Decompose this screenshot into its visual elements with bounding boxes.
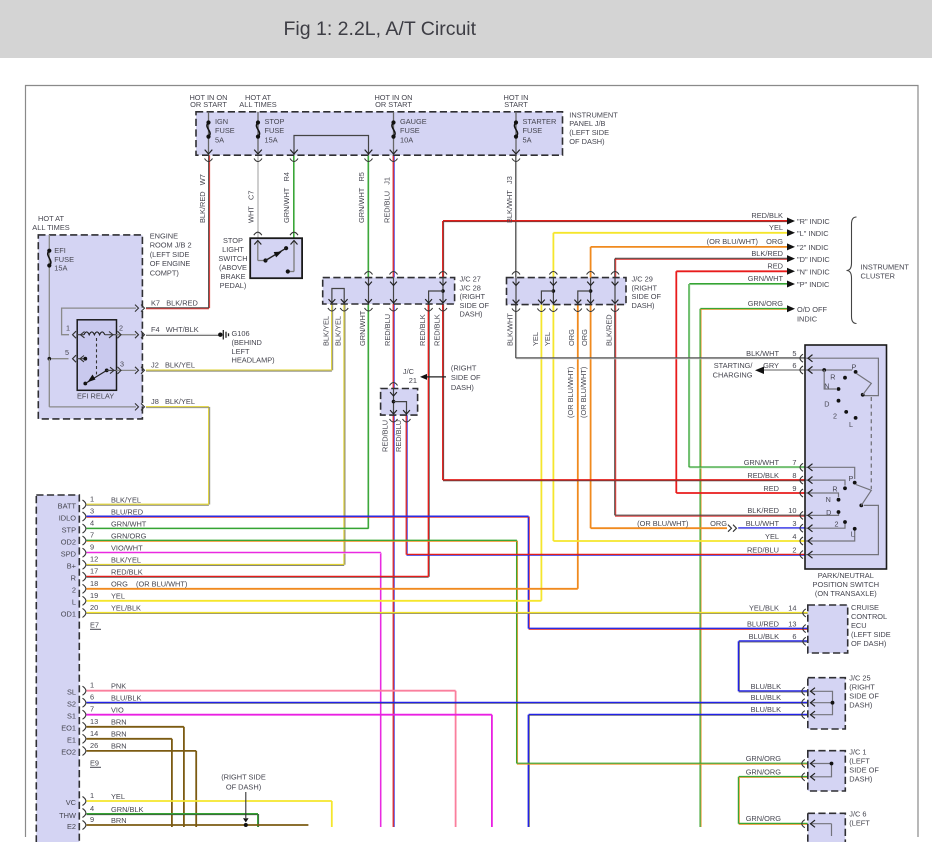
svg-text:RED/BLK: RED/BLK (111, 568, 143, 577)
svg-text:6: 6 (792, 361, 796, 370)
svg-text:3: 3 (792, 519, 796, 528)
svg-text:BLK/YEL: BLK/YEL (111, 495, 141, 504)
svg-text:BRN: BRN (111, 816, 127, 825)
svg-text:(ABOVE: (ABOVE (219, 263, 247, 272)
svg-text:R: R (71, 574, 76, 583)
svg-text:ORG: ORG (710, 519, 727, 528)
svg-text:9: 9 (90, 815, 94, 824)
svg-text:PANEL J/B: PANEL J/B (569, 119, 605, 128)
svg-text:BLK/RED W7: BLK/RED W7 (198, 174, 207, 223)
svg-text:26: 26 (90, 741, 98, 750)
svg-text:OD1: OD1 (61, 610, 76, 619)
svg-text:20: 20 (90, 603, 98, 612)
svg-text:8: 8 (792, 471, 796, 480)
svg-text:SIDE OF: SIDE OF (632, 292, 662, 301)
svg-text:L: L (72, 598, 76, 607)
svg-text:STOP: STOP (265, 117, 285, 126)
svg-text:J/C 1: J/C 1 (849, 748, 866, 757)
svg-text:(OR BLU/WHT) ORG: (OR BLU/WHT) ORG (707, 237, 784, 246)
svg-text:YEL: YEL (111, 792, 125, 801)
svg-text:GRN/WHT R4: GRN/WHT R4 (282, 172, 291, 223)
svg-text:GRN/BLK: GRN/BLK (111, 805, 144, 814)
svg-text:GRN/ORG: GRN/ORG (746, 754, 782, 763)
svg-text:BLK/WHT J3: BLK/WHT J3 (505, 176, 514, 223)
svg-text:L: L (851, 530, 855, 539)
svg-text:13: 13 (90, 717, 98, 726)
svg-text:J/C 28: J/C 28 (460, 283, 481, 292)
svg-text:19: 19 (90, 591, 98, 600)
svg-text:RED/BLU: RED/BLU (747, 545, 779, 554)
svg-text:(LEFT: (LEFT (849, 757, 870, 766)
svg-text:BLK/WHT: BLK/WHT (505, 313, 514, 346)
svg-text:18: 18 (90, 579, 98, 588)
svg-text:CLUSTER: CLUSTER (861, 271, 896, 280)
svg-text:BRN: BRN (111, 730, 127, 739)
svg-text:(RIGHT SIDE: (RIGHT SIDE (221, 773, 266, 782)
svg-text:HOT AT: HOT AT (38, 214, 64, 223)
svg-text:YEL: YEL (111, 592, 125, 601)
svg-text:EO1: EO1 (61, 724, 76, 733)
svg-text:"L" INDIC: "L" INDIC (797, 229, 829, 238)
svg-text:(ON TRANSAXLE): (ON TRANSAXLE) (815, 589, 877, 598)
svg-text:9: 9 (90, 543, 94, 552)
svg-text:VIO/WHT: VIO/WHT (111, 544, 143, 553)
svg-text:15A: 15A (54, 264, 67, 273)
svg-text:STARTING/: STARTING/ (714, 361, 754, 370)
svg-text:INDIC: INDIC (797, 315, 818, 324)
svg-text:2: 2 (792, 545, 796, 554)
svg-text:J/C 29: J/C 29 (632, 275, 653, 284)
svg-text:(RIGHT: (RIGHT (849, 683, 875, 692)
svg-text:J/C 27: J/C 27 (460, 275, 481, 284)
svg-text:R: R (832, 485, 837, 494)
svg-text:BLK/WHT: BLK/WHT (746, 349, 779, 358)
svg-text:STOP: STOP (223, 236, 243, 245)
svg-text:IGN: IGN (215, 117, 228, 126)
svg-text:BLK/YEL: BLK/YEL (321, 316, 330, 346)
svg-text:GAUGE: GAUGE (400, 117, 427, 126)
svg-text:PNK: PNK (111, 682, 126, 691)
svg-text:15A: 15A (265, 135, 278, 144)
svg-text:YEL: YEL (769, 223, 783, 232)
svg-text:D: D (824, 400, 829, 409)
svg-text:GRN/WHT: GRN/WHT (744, 458, 780, 467)
svg-text:(RIGHT: (RIGHT (451, 364, 477, 373)
svg-text:LEFT: LEFT (232, 347, 251, 356)
svg-text:GRN/WHT: GRN/WHT (358, 310, 367, 346)
svg-text:VIO: VIO (111, 706, 124, 715)
svg-text:12: 12 (90, 555, 98, 564)
svg-text:RED/BLK: RED/BLK (751, 211, 783, 220)
svg-text:"2" INDIC: "2" INDIC (797, 243, 829, 252)
svg-text:YEL/BLK: YEL/BLK (111, 604, 141, 613)
svg-text:BLU/WHT: BLU/WHT (746, 519, 780, 528)
svg-text:RED/BLU: RED/BLU (394, 420, 403, 452)
svg-text:RED/BLU: RED/BLU (383, 314, 392, 346)
svg-text:RED/BLK: RED/BLK (418, 314, 427, 346)
svg-text:14: 14 (90, 729, 98, 738)
svg-text:YEL/BLK: YEL/BLK (749, 604, 779, 613)
svg-text:START: START (504, 100, 528, 109)
svg-text:N: N (824, 382, 829, 391)
svg-text:G106: G106 (232, 329, 250, 338)
svg-text:BATT: BATT (58, 501, 77, 510)
svg-text:EFI: EFI (54, 246, 66, 255)
svg-text:5: 5 (65, 348, 69, 357)
svg-text:3: 3 (90, 507, 94, 516)
svg-text:OR START: OR START (190, 100, 227, 109)
svg-text:YEL: YEL (543, 332, 552, 346)
svg-text:ALL TIMES: ALL TIMES (239, 100, 276, 109)
svg-text:INSTRUMENT: INSTRUMENT (861, 263, 910, 272)
svg-text:"D" INDIC: "D" INDIC (797, 255, 830, 264)
svg-text:SIDE OF: SIDE OF (849, 692, 879, 701)
svg-text:BRN: BRN (111, 742, 127, 751)
svg-text:RED/BLK: RED/BLK (747, 471, 779, 480)
svg-text:ENGINE: ENGINE (150, 232, 178, 241)
svg-text:GRN/ORG: GRN/ORG (111, 531, 147, 540)
svg-text:(RIGHT: (RIGHT (460, 292, 486, 301)
svg-text:THW: THW (59, 811, 76, 820)
svg-text:ORG: ORG (567, 329, 576, 346)
svg-text:S2: S2 (67, 700, 76, 709)
svg-text:OR START: OR START (375, 100, 412, 109)
svg-text:6: 6 (792, 632, 796, 641)
svg-text:J/C: J/C (403, 367, 415, 376)
svg-text:DASH): DASH) (451, 383, 474, 392)
svg-text:STARTER: STARTER (523, 117, 557, 126)
svg-text:L: L (849, 420, 853, 429)
svg-text:BLU/BLK: BLU/BLK (751, 693, 781, 702)
svg-text:BLK/RED: BLK/RED (747, 506, 779, 515)
svg-text:OF DASH): OF DASH) (851, 639, 886, 648)
svg-text:FUSE: FUSE (265, 126, 285, 135)
svg-text:O/D OFF: O/D OFF (797, 305, 827, 314)
svg-text:CHARGING: CHARGING (713, 371, 753, 380)
svg-text:RED/BLK: RED/BLK (432, 314, 441, 346)
svg-text:(OR BLU/WHT): (OR BLU/WHT) (566, 367, 575, 418)
svg-text:GRN/WHT R5: GRN/WHT R5 (357, 172, 366, 223)
svg-text:IDLO: IDLO (59, 513, 77, 522)
svg-text:BLU/BLK: BLU/BLK (111, 694, 141, 703)
svg-text:(LEFT SIDE: (LEFT SIDE (569, 128, 609, 137)
svg-text:6: 6 (90, 693, 94, 702)
svg-text:BLK/RED: BLK/RED (604, 314, 613, 346)
svg-text:YEL: YEL (531, 332, 540, 346)
svg-text:OF ENGINE: OF ENGINE (150, 259, 191, 268)
svg-text:SIDE OF: SIDE OF (460, 301, 490, 310)
svg-text:SIDE OF: SIDE OF (451, 373, 481, 382)
svg-text:GRN/ORG: GRN/ORG (746, 767, 782, 776)
svg-text:CONTROL: CONTROL (851, 612, 887, 621)
svg-text:10A: 10A (400, 135, 413, 144)
svg-text:GRN/WHT: GRN/WHT (111, 519, 147, 528)
svg-text:10: 10 (788, 506, 796, 515)
svg-text:PARK/NEUTRAL: PARK/NEUTRAL (818, 571, 874, 580)
svg-text:VC: VC (66, 798, 77, 807)
svg-text:2: 2 (835, 520, 839, 529)
svg-text:GRN/ORG: GRN/ORG (746, 814, 782, 823)
svg-text:4: 4 (792, 532, 796, 541)
svg-text:7: 7 (90, 705, 94, 714)
svg-text:RED: RED (763, 484, 779, 493)
svg-text:D: D (826, 508, 831, 517)
svg-text:SL: SL (67, 688, 76, 697)
svg-text:DASH): DASH) (460, 310, 483, 319)
svg-text:17: 17 (90, 567, 98, 576)
svg-text:P: P (849, 474, 854, 483)
svg-text:B+: B+ (67, 562, 76, 571)
svg-text:7: 7 (792, 458, 796, 467)
svg-text:(OR BLU/WHT): (OR BLU/WHT) (579, 367, 588, 418)
svg-text:BRAKE: BRAKE (220, 272, 245, 281)
svg-text:HEADLAMP): HEADLAMP) (232, 356, 275, 365)
svg-text:BLU/RED: BLU/RED (111, 507, 143, 516)
svg-text:P: P (852, 363, 857, 372)
svg-text:INSTRUMENT: INSTRUMENT (569, 110, 618, 119)
svg-text:SPD: SPD (61, 550, 76, 559)
svg-text:(LEFT SIDE: (LEFT SIDE (851, 630, 891, 639)
svg-text:2: 2 (833, 412, 837, 421)
svg-text:SIDE OF: SIDE OF (849, 766, 879, 775)
svg-text:BRN: BRN (111, 718, 127, 727)
svg-text:4: 4 (90, 519, 94, 528)
svg-text:GRY: GRY (763, 361, 779, 370)
svg-text:COMPT): COMPT) (150, 268, 179, 277)
svg-text:E2: E2 (67, 822, 76, 831)
svg-text:SWITCH: SWITCH (218, 254, 247, 263)
svg-text:OD2: OD2 (61, 537, 76, 546)
svg-text:FUSE: FUSE (400, 126, 420, 135)
svg-text:"P" INDIC: "P" INDIC (797, 280, 830, 289)
svg-text:9: 9 (792, 484, 796, 493)
svg-text:FUSE: FUSE (54, 255, 74, 264)
svg-text:RED: RED (767, 262, 783, 271)
svg-text:E1: E1 (67, 736, 76, 745)
svg-text:RED/BLU: RED/BLU (381, 420, 390, 452)
svg-text:2: 2 (119, 324, 123, 333)
svg-text:21: 21 (409, 376, 417, 385)
svg-text:Fig 1: 2.2L, A/T Circuit: Fig 1: 2.2L, A/T Circuit (284, 18, 477, 40)
svg-text:WHT C7: WHT C7 (246, 191, 255, 223)
svg-text:ALL TIMES: ALL TIMES (32, 223, 69, 232)
svg-text:ROOM J/B 2: ROOM J/B 2 (150, 241, 192, 250)
svg-text:14: 14 (788, 604, 796, 613)
svg-text:BLU/BLK: BLU/BLK (751, 682, 781, 691)
svg-text:BLU/BLK: BLU/BLK (751, 705, 781, 714)
svg-text:(LEFT SIDE: (LEFT SIDE (150, 250, 190, 259)
svg-text:GRN/ORG: GRN/ORG (748, 299, 784, 308)
svg-text:GRN/WHT: GRN/WHT (748, 274, 784, 283)
svg-text:EO2: EO2 (61, 748, 76, 757)
svg-text:STP: STP (62, 525, 76, 534)
svg-text:4: 4 (90, 804, 94, 813)
svg-text:FUSE: FUSE (523, 126, 543, 135)
svg-text:FUSE: FUSE (215, 126, 235, 135)
svg-text:E9: E9 (90, 759, 99, 768)
svg-text:5: 5 (792, 349, 796, 358)
svg-text:BLK/YEL: BLK/YEL (334, 316, 343, 346)
svg-text:DASH): DASH) (849, 775, 872, 784)
svg-text:(LEFT: (LEFT (849, 819, 870, 828)
svg-text:ECU: ECU (851, 621, 867, 630)
svg-text:BLK/YEL: BLK/YEL (111, 556, 141, 565)
svg-text:5A: 5A (523, 135, 532, 144)
svg-text:BLU/BLK: BLU/BLK (749, 632, 779, 641)
svg-text:ORG (OR BLU/WHT): ORG (OR BLU/WHT) (111, 580, 187, 589)
svg-text:S1: S1 (67, 712, 76, 721)
svg-text:EFI RELAY: EFI RELAY (77, 392, 114, 401)
svg-text:(OR BLU/WHT): (OR BLU/WHT) (637, 519, 688, 528)
svg-text:7: 7 (90, 531, 94, 540)
svg-text:OF DASH): OF DASH) (226, 782, 261, 791)
svg-text:3: 3 (120, 360, 124, 369)
svg-text:1: 1 (66, 324, 70, 333)
svg-text:1: 1 (90, 681, 94, 690)
svg-text:1: 1 (90, 791, 94, 800)
svg-text:J8 BLK/YEL: J8 BLK/YEL (151, 397, 195, 406)
svg-text:POSITION SWITCH: POSITION SWITCH (813, 580, 880, 589)
svg-text:2: 2 (72, 586, 76, 595)
svg-text:RED/BLU J1: RED/BLU J1 (382, 177, 391, 223)
svg-text:YEL: YEL (765, 532, 779, 541)
svg-text:R: R (830, 373, 835, 382)
svg-text:DASH): DASH) (849, 701, 872, 710)
svg-text:DASH): DASH) (632, 301, 655, 310)
svg-text:LIGHT: LIGHT (222, 245, 244, 254)
svg-text:J/C 6: J/C 6 (849, 810, 866, 819)
svg-text:(BEHIND: (BEHIND (232, 338, 262, 347)
svg-text:J/C 25: J/C 25 (849, 674, 870, 683)
svg-text:"N" INDIC: "N" INDIC (797, 268, 830, 277)
svg-text:CRUISE: CRUISE (851, 603, 879, 612)
svg-text:N: N (826, 495, 831, 504)
svg-text:BLU/RED: BLU/RED (747, 619, 779, 628)
svg-text:PEDAL): PEDAL) (220, 281, 247, 290)
svg-text:F4 WHT/BLK: F4 WHT/BLK (151, 325, 199, 334)
svg-text:(RIGHT: (RIGHT (632, 283, 658, 292)
svg-text:ORG: ORG (580, 329, 589, 346)
svg-text:5A: 5A (215, 135, 224, 144)
svg-text:13: 13 (788, 619, 796, 628)
svg-text:BLK/RED: BLK/RED (751, 249, 783, 258)
svg-text:E7: E7 (90, 621, 99, 630)
svg-text:1: 1 (90, 495, 94, 504)
svg-text:K7 BLK/RED: K7 BLK/RED (151, 299, 198, 308)
svg-text:"R" INDIC: "R" INDIC (797, 217, 830, 226)
svg-text:J2 BLK/YEL: J2 BLK/YEL (151, 361, 195, 370)
svg-text:OF DASH): OF DASH) (569, 137, 604, 146)
